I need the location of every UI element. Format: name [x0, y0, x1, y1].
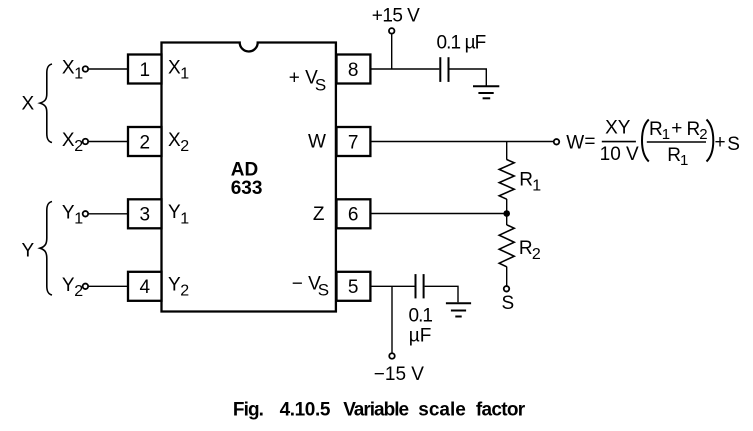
- svg-text:1: 1: [180, 210, 189, 227]
- svg-text:µF: µF: [409, 326, 432, 347]
- svg-text:Y: Y: [62, 275, 75, 296]
- svg-text:8: 8: [348, 60, 359, 81]
- svg-text:Variable: Variable: [343, 400, 408, 421]
- wire Y2 to pin4: [89, 285, 128, 287]
- terminal Y1: [83, 211, 89, 217]
- svg-text:6: 6: [348, 205, 359, 226]
- IC internal pin name X1: [168, 57, 189, 82]
- svg-text:0.1 µF: 0.1 µF: [437, 32, 486, 53]
- svg-text:Z: Z: [313, 204, 325, 225]
- input label Y2: [62, 275, 83, 300]
- svg-text:S: S: [502, 293, 515, 314]
- IC value label AD 633: [231, 160, 263, 199]
- pin 4 box: [128, 272, 162, 301]
- pin 1 box: [128, 55, 162, 84]
- wire pin8 to capacitor C1: [370, 68, 439, 70]
- wire C2 to ground: [425, 286, 458, 302]
- svg-text:R: R: [687, 119, 701, 140]
- svg-text:5: 5: [348, 277, 359, 298]
- brace X group: [40, 64, 52, 143]
- terminal S: [504, 286, 510, 292]
- svg-text:1: 1: [140, 60, 151, 81]
- input label X1: [62, 58, 83, 83]
- IC internal pin name +VS: [289, 67, 326, 94]
- svg-text:Y: Y: [168, 275, 181, 296]
- wire +15V to pin8 net: [391, 34, 393, 69]
- ground G2: [446, 303, 471, 316]
- svg-text:R: R: [519, 169, 533, 190]
- ground G1: [473, 86, 499, 98]
- pin 8 box: [337, 55, 371, 84]
- svg-text:Y: Y: [62, 203, 75, 224]
- IC internal pin name Y1: [168, 202, 189, 227]
- brace Y group: [40, 202, 52, 296]
- junction node Z dot: [503, 210, 510, 217]
- svg-text:4.10.5: 4.10.5: [280, 400, 331, 421]
- wire W node down to R1: [506, 142, 508, 160]
- svg-text:7: 7: [348, 132, 359, 153]
- IC internal pin name -VS: [292, 273, 329, 299]
- svg-text:2: 2: [140, 132, 151, 153]
- svg-text:R: R: [667, 145, 681, 166]
- svg-text:X: X: [62, 130, 75, 151]
- svg-text:scale: scale: [418, 400, 466, 421]
- wire X2 to pin2: [89, 141, 128, 143]
- pin 2 box: [128, 127, 162, 156]
- wire R2 to terminal S: [506, 267, 508, 286]
- svg-text:Y: Y: [22, 240, 35, 261]
- capacitor C1 0.1uF plates: [440, 57, 448, 82]
- pin 7 box: [337, 127, 371, 156]
- svg-text:3: 3: [140, 205, 151, 226]
- resistor R2: [499, 225, 514, 267]
- terminal X2: [83, 139, 89, 145]
- svg-text:1: 1: [180, 66, 189, 83]
- wire X1 to pin1: [89, 68, 128, 70]
- svg-text:R: R: [519, 238, 533, 259]
- IC internal pin name Y2: [168, 275, 189, 300]
- input label X2: [62, 130, 83, 155]
- R2 reference label: [519, 238, 541, 263]
- svg-text:2: 2: [532, 246, 541, 263]
- capacitor C2 0.1uF plates: [416, 274, 424, 298]
- svg-text:X: X: [168, 130, 181, 151]
- svg-text:S: S: [727, 134, 740, 155]
- output equation W = XY/10V ((R1+R2)/R1) + S: [566, 117, 740, 169]
- pin 5 box: [337, 272, 371, 301]
- svg-text:R: R: [649, 119, 663, 140]
- terminal X1: [83, 66, 89, 72]
- wire R1 to node Z junction: [506, 199, 508, 214]
- svg-text:Y: Y: [168, 202, 181, 223]
- svg-text:1: 1: [74, 66, 83, 83]
- wire pin6 Z: [370, 213, 506, 215]
- svg-text:2: 2: [180, 283, 189, 300]
- terminal W output: [554, 139, 560, 145]
- svg-text:S: S: [318, 281, 329, 300]
- op-amp U1 AD633 body: [162, 43, 336, 312]
- svg-text:+15 V: +15 V: [372, 5, 420, 26]
- svg-text:+: +: [715, 132, 726, 153]
- svg-text:4: 4: [140, 277, 151, 298]
- wire pin5 to capacitor C2: [370, 285, 414, 287]
- wire junction to R2: [506, 214, 508, 226]
- svg-text:1: 1: [662, 126, 670, 143]
- resistor R1: [499, 160, 514, 200]
- pin 3 box: [128, 199, 162, 228]
- IC internal pin name X2: [168, 130, 189, 155]
- svg-text:2: 2: [180, 138, 189, 155]
- terminal Y2: [83, 284, 89, 290]
- svg-text:XY: XY: [605, 117, 631, 138]
- svg-text:+: +: [671, 118, 682, 139]
- svg-text:1: 1: [532, 177, 541, 194]
- svg-text:=: =: [584, 131, 595, 152]
- svg-text:2: 2: [74, 283, 83, 300]
- svg-text:633: 633: [231, 178, 263, 199]
- svg-text:1: 1: [74, 210, 83, 227]
- svg-text:0.1: 0.1: [409, 305, 433, 326]
- wire Y1 to pin3: [89, 213, 128, 215]
- svg-text:S: S: [315, 76, 326, 95]
- svg-text:1: 1: [680, 152, 688, 169]
- capacitor C2 value 0.1 uF: [409, 305, 433, 346]
- svg-text:W: W: [308, 132, 326, 153]
- wire C1 to ground: [450, 69, 487, 86]
- R1 reference label: [519, 169, 541, 194]
- svg-text:10 V: 10 V: [600, 144, 639, 165]
- pin 6 box: [337, 199, 371, 228]
- svg-text:2: 2: [74, 138, 83, 155]
- caption: [233, 400, 526, 421]
- svg-text:+ V: + V: [289, 67, 318, 88]
- +15V supply terminal: [389, 28, 395, 34]
- svg-text:Fig.: Fig.: [233, 400, 263, 421]
- svg-text:X: X: [22, 94, 35, 115]
- svg-text:factor: factor: [476, 400, 526, 421]
- svg-text:2: 2: [699, 126, 707, 143]
- wire -15V branch: [391, 286, 393, 353]
- input label Y1: [62, 203, 83, 228]
- svg-text:X: X: [168, 57, 181, 78]
- svg-text:−15 V: −15 V: [374, 364, 425, 385]
- svg-text:W: W: [566, 132, 584, 153]
- svg-text:X: X: [62, 58, 75, 79]
- -15V supply terminal: [389, 353, 395, 359]
- wire pin7 W output: [370, 141, 553, 143]
